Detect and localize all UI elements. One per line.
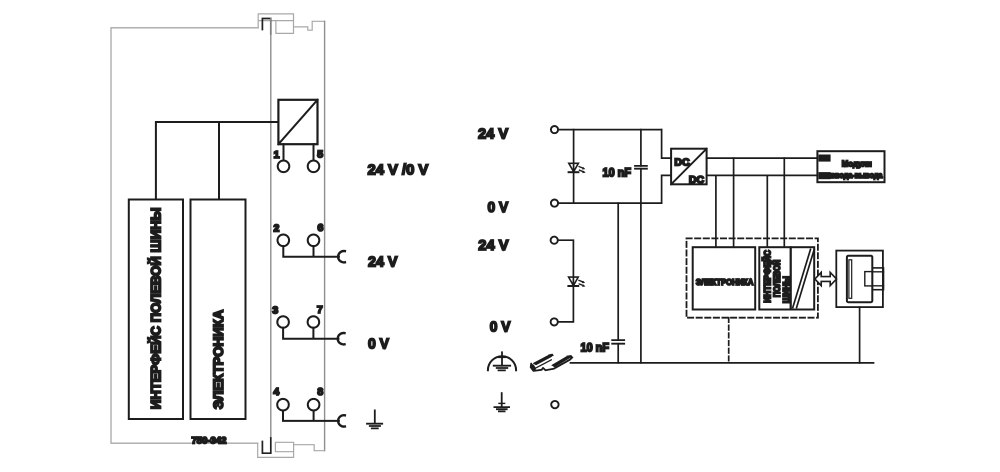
capacitor C2 plates bbox=[612, 340, 624, 344]
terminal 2 bbox=[278, 235, 290, 247]
pin 1 stub bbox=[283, 144, 285, 160]
terminal 7 bbox=[308, 316, 320, 328]
I/O modules pin top bbox=[820, 155, 830, 160]
wire terminals 3-7 to clamp bbox=[283, 328, 338, 339]
terminal 24V system bbox=[551, 126, 558, 133]
DC/DC input wires bbox=[662, 130, 672, 204]
svg-text:0 V: 0 V bbox=[490, 318, 511, 335]
wire 0V rail bbox=[558, 202, 661, 204]
pin 5 stub bbox=[313, 144, 315, 160]
ground symbol module bbox=[367, 410, 382, 428]
DIN-rail latch bottom bbox=[258, 442, 325, 457]
bus drop 4 bbox=[783, 158, 785, 247]
fieldbus interface box bbox=[129, 200, 183, 420]
svg-text:8: 8 bbox=[317, 386, 323, 398]
terminal 1 bbox=[278, 161, 290, 173]
bus drop 3 bbox=[766, 175, 768, 247]
LED2 bbox=[568, 277, 585, 287]
I/O modules box bbox=[817, 151, 884, 182]
terminal 6 bbox=[308, 235, 320, 247]
fieldbus connector bbox=[836, 251, 883, 308]
module bus edge left bbox=[270, 19, 272, 454]
svg-text:6: 6 bbox=[317, 222, 323, 234]
svg-text:24 V /0 V: 24 V /0 V bbox=[368, 162, 429, 179]
DC/DC converter bbox=[671, 149, 707, 185]
latch top notch bbox=[262, 19, 270, 35]
svg-text:1: 1 bbox=[274, 149, 280, 161]
electronics box bbox=[191, 200, 246, 420]
capacitor C1 plates bbox=[635, 166, 647, 169]
svg-text:ЭЛЕКТРОНИКА: ЭЛЕКТРОНИКА bbox=[696, 277, 754, 287]
terminal 5 bbox=[308, 161, 320, 173]
svg-text:3: 3 bbox=[272, 304, 278, 316]
LED1 bbox=[569, 163, 586, 173]
svg-text:10 nF: 10 nF bbox=[603, 165, 632, 179]
svg-text:ввода-вывода: ввода-вывода bbox=[831, 171, 883, 180]
svg-text:4: 4 bbox=[273, 386, 279, 398]
DC/DC output wires bbox=[707, 158, 818, 175]
svg-text:ПОЛЕВОЙ: ПОЛЕВОЙ bbox=[771, 260, 782, 297]
LED1 branch wire bbox=[573, 130, 575, 204]
wire terminals 2-6 to clamp bbox=[283, 246, 339, 257]
wire boxes to supply square bbox=[156, 122, 279, 200]
shield drop dashed bbox=[728, 318, 730, 363]
latch bottom notch bbox=[262, 438, 270, 453]
terminal 3 bbox=[277, 316, 289, 328]
DIN rail icon bbox=[531, 354, 573, 371]
fieldbus interface block bbox=[759, 247, 790, 309]
legend ground symbol bbox=[494, 393, 509, 411]
svg-text:7: 7 bbox=[317, 304, 323, 316]
terminal 0V field bbox=[551, 318, 558, 325]
capacitor C1 branch bbox=[640, 130, 642, 363]
svg-text:0 V: 0 V bbox=[488, 199, 509, 216]
terminal 8 bbox=[308, 399, 320, 411]
terminal 24V field bbox=[551, 237, 558, 244]
clamp contact earth bbox=[338, 415, 345, 426]
bus drop 1 bbox=[715, 175, 717, 247]
electronics block bbox=[693, 247, 756, 309]
fieldbus interface block label bbox=[761, 250, 791, 304]
module bus edge right bbox=[324, 21, 326, 450]
svg-text:5: 5 bbox=[317, 149, 323, 161]
svg-text:Модули: Модули bbox=[842, 159, 872, 169]
svg-text:10 nF: 10 nF bbox=[581, 341, 610, 355]
capacitor C2 branch bbox=[617, 203, 619, 363]
svg-text:ЭЛЕКТРОНИКА: ЭЛЕКТРОНИКА bbox=[210, 310, 226, 410]
bidirectional arrow bbox=[815, 272, 837, 285]
terminal 4 bbox=[277, 399, 289, 411]
clamp contact 24V bbox=[338, 251, 345, 262]
level shifter block bbox=[791, 247, 815, 309]
svg-text:0 V: 0 V bbox=[368, 336, 389, 353]
svg-text:24 V: 24 V bbox=[368, 254, 398, 271]
module housing outline bbox=[111, 28, 258, 443]
wire terminals 4-8 to clamp bbox=[283, 411, 339, 421]
LED2 branch wire bbox=[558, 240, 574, 322]
svg-text:ИНТЕРФЕЙС: ИНТЕРФЕЙС bbox=[761, 250, 772, 303]
wire 24V rail bbox=[558, 129, 661, 131]
connector ground wire bbox=[859, 307, 861, 363]
dashed enclosure bbox=[687, 238, 818, 317]
terminal 0V system bbox=[551, 200, 558, 207]
earth rail bbox=[571, 362, 874, 364]
svg-text:2: 2 bbox=[273, 223, 279, 235]
svg-text:24 V: 24 V bbox=[478, 237, 508, 254]
power supply square bbox=[278, 100, 317, 144]
svg-text:750-342: 750-342 bbox=[192, 436, 227, 447]
DIN-rail latch top bbox=[258, 14, 324, 34]
svg-text:DC: DC bbox=[689, 174, 705, 186]
bus drop 2 bbox=[733, 158, 735, 247]
legend terminal circle bbox=[551, 401, 558, 408]
svg-text:24 V: 24 V bbox=[478, 126, 508, 143]
I/O modules pin bottom bbox=[820, 173, 830, 178]
svg-text:ИНТЕРФЕЙС ПОЛЕВОЙ ШИНЫ: ИНТЕРФЕЙС ПОЛЕВОЙ ШИНЫ bbox=[146, 208, 163, 410]
functional earth symbol bbox=[488, 352, 516, 370]
clamp contact 0V bbox=[338, 333, 345, 344]
svg-text:DC: DC bbox=[674, 156, 690, 168]
